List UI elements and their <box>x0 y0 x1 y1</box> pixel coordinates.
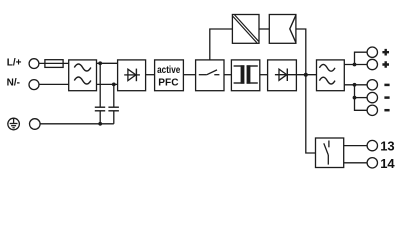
capacitor C1 wire upper <box>99 63 101 107</box>
capacitor C1 plates <box>95 106 105 108</box>
node dot minus 2 <box>353 96 357 100</box>
input filter box U1 <box>69 60 97 91</box>
wire diode box to output filter <box>296 74 316 76</box>
diode box D1 <box>268 60 297 91</box>
wire output filter plus <box>344 64 367 66</box>
wire minus stub 2 <box>355 97 368 99</box>
terminal -2 <box>367 92 377 102</box>
input filter sine top <box>74 64 91 71</box>
wire L terminal to input filter <box>39 62 69 64</box>
terminal +2 <box>367 59 377 69</box>
boost chevron <box>290 15 296 42</box>
relay contact symbol <box>324 141 329 165</box>
rectifier diode symbol <box>124 69 140 82</box>
terminal PE <box>30 119 41 130</box>
svg-text:L/+: L/+ <box>7 58 22 69</box>
terminal -1 <box>367 80 377 90</box>
output filter sine top <box>319 64 335 71</box>
wire output filter minus <box>344 84 367 86</box>
wire relay output 14 <box>344 162 367 164</box>
top box boost U3 <box>269 15 296 44</box>
wire N terminal to input filter <box>39 83 69 85</box>
node dot on ground rail <box>98 122 102 126</box>
node dot minus 1 <box>353 83 357 87</box>
svg-text:active: active <box>157 64 180 76</box>
wire filter to rectifier top <box>97 62 118 64</box>
output filter sine bottom <box>319 77 335 84</box>
switch box S1 <box>196 60 224 91</box>
wire filter to rectifier bottom <box>97 83 118 85</box>
wire box1 to box2 <box>259 28 269 30</box>
diode symbol <box>275 69 297 82</box>
label plus 1 <box>382 49 389 56</box>
wire rectifier to PFC <box>146 74 155 76</box>
terminal 13 <box>367 140 377 150</box>
input filter sine bottom <box>74 77 91 84</box>
node dot bottom N line <box>112 83 116 87</box>
label minus 1 <box>384 84 389 87</box>
capacitor C2 wire lower <box>113 111 115 124</box>
terminal +1 <box>367 47 377 57</box>
output filter box U4 <box>317 60 345 91</box>
wire transformer to diode box <box>260 74 268 76</box>
wire plus branch up <box>355 52 368 64</box>
terminal -3 <box>367 105 377 115</box>
relay box K1 <box>316 138 344 168</box>
node dot top L line <box>98 61 102 65</box>
ground rail wire <box>40 123 114 125</box>
PFC box <box>155 60 184 91</box>
earth symbol <box>8 118 20 130</box>
converter diagonal <box>235 15 259 41</box>
terminal N <box>29 80 39 90</box>
wire riser to top branch <box>210 29 233 60</box>
fuse F1 <box>45 60 63 68</box>
wire box2 down to junction <box>296 29 306 75</box>
capacitor C1 wire lower <box>99 111 101 124</box>
transformer primary winding <box>234 65 245 83</box>
capacitor C2 plates <box>108 106 119 108</box>
wire junction down to relay <box>306 75 316 153</box>
terminal 14 <box>367 158 377 168</box>
capacitor C2 wire upper <box>113 84 115 107</box>
svg-text:N/-: N/- <box>7 78 20 89</box>
wire PFC to switch <box>183 74 195 76</box>
wire relay output 13 <box>344 145 367 147</box>
transformer secondary winding <box>247 65 258 83</box>
switch symbol <box>199 70 220 75</box>
rectifier box <box>118 60 146 91</box>
label minus 2 <box>384 96 389 99</box>
wire switch to transformer <box>224 74 231 76</box>
transformer box T1 <box>231 60 259 91</box>
terminal L <box>29 59 39 69</box>
svg-text:PFC: PFC <box>158 78 179 89</box>
label plus 2 <box>382 61 389 68</box>
svg-text:14: 14 <box>380 156 395 171</box>
top box converter U2 <box>232 15 259 44</box>
svg-text:13: 13 <box>380 138 394 153</box>
wire minus branch down <box>355 85 368 111</box>
node junction main <box>304 73 308 77</box>
node dot plus <box>353 63 357 67</box>
label minus 3 <box>384 109 389 112</box>
